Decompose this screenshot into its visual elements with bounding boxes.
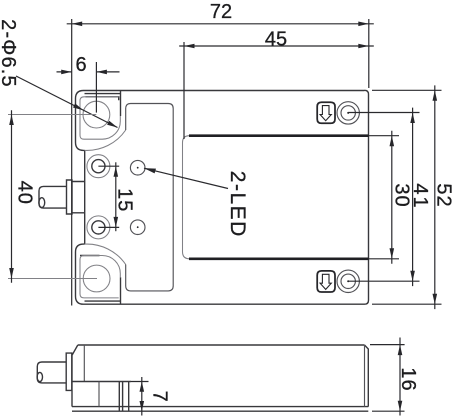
extension line 30 bottom [369,258,400,260]
LED hole top center dot [137,167,139,169]
svg-text:52: 52 [433,183,455,207]
svg-text:45: 45 [265,28,287,50]
arrow 41 bottom [410,271,415,282]
svg-text:6: 6 [75,54,86,76]
cable barrel (main view) [39,186,67,208]
arrow 40 top [9,115,14,126]
sensing window top edge (thick) [189,134,369,137]
dimension line 7 [141,377,143,416]
arrow 7 bottom [140,401,145,411]
lug right edge (top) [120,91,122,117]
washer circle bottom-right inner [341,274,355,288]
extension line (6) hole centerline up [95,62,97,113]
body right edge with corners [365,90,369,304]
sensing window bottom edge (thick) [189,257,369,260]
cover vertical right [128,382,130,412]
extension lines 40 (hole centerlines) [8,115,97,279]
extension line (45 left) [183,42,185,139]
body mid-left edge [84,150,86,244]
LED hole top [130,160,145,175]
washer circle bottom-right outer [337,270,359,292]
arrow 45 right [358,44,369,49]
top-left mounting lug outline [76,91,85,151]
clamp screw symbol top-right [317,102,335,123]
screw center dot top-right [347,112,349,114]
arrow 52 top [433,90,438,101]
leader 2-LED [144,168,228,188]
lug boss bottom dark segment (top edge of lower boss) [80,255,100,257]
dimension line 41 [412,108,414,287]
arrow 6 left [61,70,72,75]
arrow 40 bottom [9,268,14,279]
leader arrowhead 2-LED [144,168,156,173]
cable stub neck lines [72,182,85,213]
dimension line 45 [179,45,374,47]
svg-text:72: 72 [210,1,232,23]
terminal screw hole top outer [87,155,110,178]
leader arrowhead on hole edge [73,103,83,110]
side cover bottom line [72,410,368,412]
lug right edge (bottom) [120,277,122,304]
extension line 30 top (thick edge continuation) [369,135,400,137]
washer circle top-right outer [337,102,359,124]
dimension line 6 with outside arrows [57,71,120,73]
side face inner line (right) [364,345,366,407]
lug boss top edge dark segment [86,97,119,100]
dimension line 15 [115,162,117,231]
arrow 30 bottom [390,248,395,259]
body bottom edge [84,303,365,305]
lug boss bottom [80,256,120,298]
notch arc top (body edge to terminal block) [85,130,126,150]
arrow 52 bottom [433,294,438,305]
notch arc bottom [85,244,126,264]
leader arrowhead at end [107,121,117,128]
hole bottom-left (phi 6.5) [83,265,110,292]
extension lines 15 (terminal centerlines) [98,166,119,227]
dimension line 40 [11,110,13,283]
arrow 41 top [410,113,415,124]
extension 16 bottom [372,410,405,412]
dimension line 72 [67,23,374,25]
arrow 72 right [358,22,369,27]
body top edge [84,90,365,92]
svg-text:15: 15 [114,188,136,212]
side cover top line [72,381,131,383]
cable flange (side view) [66,353,72,390]
dimension line 16 [399,338,401,416]
extension 7 (cover top line continuation) [131,381,149,383]
svg-text:40: 40 [14,181,36,205]
arrow 15 bottom [114,217,119,228]
extension lines 41 (screw centerlines) [348,113,419,282]
arrow 15 top [114,166,119,177]
svg-text:2-LED: 2-LED [226,171,249,238]
LED hole bottom [130,220,145,235]
svg-text:16: 16 [397,367,419,391]
arrow 72 left [72,22,83,27]
cover verticals screw boss [119,382,122,412]
terminal screw hole bottom outer [87,216,110,239]
arrow 45 left [184,44,195,49]
side body outline [72,345,368,407]
arrow 16 top [398,345,403,356]
bottom-left mounting lug outline [76,244,85,304]
arrow 7 top [140,382,145,392]
leader 2-phi6.5 [16,76,118,128]
arrow 6 right [96,70,107,75]
cable stub flange (main view) [67,180,73,214]
extension lines 52 [372,90,442,304]
lug boss top (raised pad outline) [80,97,120,139]
cable barrel (side view) [37,362,66,383]
extension line left (72) [71,19,73,306]
svg-text:7: 7 [149,391,171,402]
sensing window left edge [183,136,190,259]
extension line right (72/45) [368,19,370,88]
svg-text:2-Φ6.5: 2-Φ6.5 [0,19,19,88]
cable end ellipse (side view) [37,372,42,381]
lug step line bottom [85,300,121,302]
side internal edge left cap [83,345,85,382]
arrow 30 top [390,136,395,147]
dimension line 30 [391,131,393,264]
cable end ellipse [39,198,45,208]
cover vertical x=99 [98,382,100,407]
arrow 16 bottom [398,401,403,412]
terminal screw hole top inner [92,160,105,173]
LED hole bottom center dot [137,226,139,228]
dimension line 52 [434,85,436,309]
terminal block outline [126,104,174,291]
clamp screw symbol bottom-right [317,271,335,292]
washer circle top-right inner [341,106,355,120]
svg-text:41: 41 [409,183,431,209]
hole top-left (phi 6.5) [83,101,110,128]
screw center dot bottom-right [347,280,349,282]
terminal screw hole bottom inner [92,221,105,234]
lug step line top [85,93,121,95]
extension 16 top [370,344,405,346]
